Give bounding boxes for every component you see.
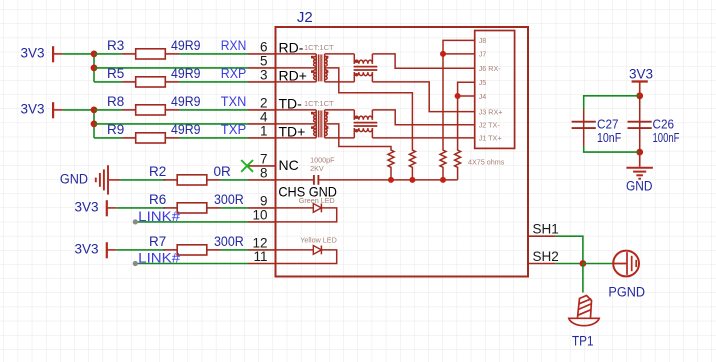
- svg-text:8: 8: [260, 166, 268, 181]
- pin SH2: [528, 263, 556, 265]
- junction: [636, 149, 643, 156]
- dangling end: [133, 261, 138, 266]
- svg-text:J1 TX+: J1 TX+: [479, 134, 502, 143]
- wire SH1 to junction: [556, 236, 583, 263]
- svg-text:R8: R8: [107, 94, 124, 109]
- svg-text:J2 TX-: J2 TX-: [479, 121, 501, 130]
- wire junction to TP1: [582, 264, 584, 293]
- capacitor C27 10nF: [583, 110, 585, 147]
- svg-text:1CT:1CT: 1CT:1CT: [304, 43, 334, 52]
- LED yellow: [276, 249, 314, 251]
- svg-text:NC: NC: [279, 157, 299, 173]
- pin 9: [248, 207, 276, 209]
- wire choke1 bottom to J3 RX+: [372, 82, 474, 112]
- junction: [91, 51, 98, 58]
- wire TD- to T2: [276, 109, 317, 111]
- svg-text:GND: GND: [626, 178, 653, 193]
- common-mode choke L1: [353, 54, 355, 64]
- svg-text:4X75 ohms: 4X75 ohms: [468, 158, 505, 167]
- transformer T1 1CT:1CT: [315, 54, 317, 82]
- wire TD+ to T2: [276, 137, 317, 139]
- wire center-tap pin: [94, 67, 248, 69]
- wire T1 top to choke1: [325, 53, 355, 55]
- svg-text:9: 9: [260, 194, 268, 209]
- junction: [440, 51, 446, 57]
- svg-text:Green LED: Green LED: [299, 196, 335, 205]
- svg-text:TP1: TP1: [572, 334, 594, 349]
- pin 10: [248, 221, 276, 223]
- svg-text:5: 5: [260, 54, 268, 69]
- svg-text:J2: J2: [297, 9, 313, 26]
- svg-text:RXP: RXP: [221, 66, 247, 81]
- svg-text:R6: R6: [149, 192, 166, 207]
- wire RD+ to T1: [276, 81, 317, 83]
- wire pin5 center tap to T1: [276, 67, 317, 69]
- svg-text:300R: 300R: [214, 234, 244, 249]
- wire choke1 top to J6 RX-: [372, 54, 474, 68]
- resistor R7: [116, 249, 165, 251]
- resistor R6: [116, 207, 165, 209]
- wire choke2 bottom to J1 TX+: [372, 137, 474, 139]
- wire center-tap pin: [94, 123, 248, 125]
- capacitor C26 100nF: [639, 96, 641, 152]
- junction: [91, 107, 98, 114]
- wire T2 bottom to choke2: [325, 137, 355, 139]
- power 3V3 (R8/R9 pair): [52, 102, 54, 118]
- svg-text:3V3: 3V3: [75, 241, 99, 256]
- svg-text:R5: R5: [107, 66, 124, 81]
- resistor R9: [94, 137, 122, 139]
- svg-text:3V3: 3V3: [21, 101, 45, 116]
- power 3V3 (R3/R5 pair): [52, 46, 54, 62]
- wire 3V3 to junction: [63, 109, 94, 111]
- ground GND (right): [639, 152, 641, 167]
- svg-text:2: 2: [260, 96, 268, 111]
- svg-text:R2: R2: [149, 164, 166, 179]
- svg-text:J7: J7: [479, 50, 487, 59]
- svg-text:0R: 0R: [214, 164, 232, 179]
- svg-text:Yellow LED: Yellow LED: [300, 236, 337, 245]
- wire 3V3 to junction: [63, 53, 94, 55]
- svg-text:100nF: 100nF: [653, 130, 680, 145]
- junction: [91, 65, 98, 72]
- resistor 75R b: [409, 147, 415, 180]
- svg-text:11: 11: [253, 249, 267, 264]
- svg-text:RXN: RXN: [221, 38, 247, 53]
- pin 5: [248, 67, 276, 69]
- svg-text:SH2: SH2: [533, 249, 559, 264]
- resistor R5: [94, 81, 122, 83]
- svg-text:GND: GND: [60, 172, 88, 187]
- svg-text:49R9: 49R9: [171, 66, 201, 81]
- svg-text:3V3: 3V3: [629, 66, 653, 81]
- wire RD- to T1: [276, 53, 317, 55]
- svg-text:3V3: 3V3: [21, 45, 45, 60]
- junction: [388, 177, 394, 183]
- junction: [455, 93, 461, 99]
- pin 11: [248, 263, 276, 265]
- wire choke2 top to J2 TX-: [372, 110, 474, 125]
- wire SH2 to junction: [556, 263, 583, 265]
- wire pin4 center tap to T2: [276, 123, 317, 125]
- junction: [91, 121, 98, 128]
- junction: [580, 260, 587, 267]
- test point TP1: [569, 296, 599, 326]
- svg-text:3V3: 3V3: [75, 199, 99, 214]
- LED green: [276, 207, 314, 209]
- svg-text:J3 RX+: J3 RX+: [479, 107, 503, 116]
- svg-text:J5: J5: [479, 78, 487, 87]
- pin 7: [248, 165, 276, 167]
- wire J8/J7 bus: [443, 40, 475, 147]
- junction: [636, 92, 643, 99]
- junction: [409, 177, 415, 183]
- svg-text:4: 4: [260, 110, 268, 125]
- wire capacitor to resistor bottoms: [319, 179, 458, 181]
- svg-text:49R9: 49R9: [171, 38, 201, 53]
- no-connect X (pin 7): [241, 160, 253, 172]
- svg-text:10nF: 10nF: [597, 130, 621, 145]
- resistor R8: [94, 109, 122, 111]
- resistor 75R a: [388, 147, 394, 180]
- pin SH1: [528, 235, 556, 237]
- resistor 75R d: [455, 147, 461, 180]
- common-mode choke L2: [353, 110, 355, 120]
- wire LINK#: [135, 263, 248, 265]
- svg-text:R7: R7: [149, 234, 166, 249]
- wire cap bottom: [584, 146, 640, 152]
- resistor R2: [120, 179, 165, 181]
- pin 2: [248, 109, 276, 111]
- svg-text:R3: R3: [107, 38, 124, 53]
- svg-text:TXP: TXP: [221, 122, 247, 137]
- pin 3: [248, 81, 276, 83]
- svg-text:J4: J4: [479, 92, 487, 101]
- svg-text:SH1: SH1: [533, 222, 559, 237]
- pin 1: [248, 137, 276, 139]
- wire T1 bottom to choke1: [325, 81, 355, 83]
- svg-text:1CT:1CT: 1CT:1CT: [304, 99, 334, 108]
- svg-text:PGND: PGND: [608, 285, 645, 300]
- power 3V3 (right): [632, 80, 648, 82]
- connector plug box: [475, 31, 515, 149]
- wire junction to PGND: [583, 263, 613, 265]
- svg-text:2KV: 2KV: [310, 164, 324, 173]
- svg-text:10: 10: [252, 208, 267, 223]
- svg-text:J6 RX-: J6 RX-: [479, 64, 502, 73]
- svg-text:TXN: TXN: [221, 94, 247, 109]
- svg-text:6: 6: [260, 40, 268, 55]
- ground GND (left): [95, 178, 97, 183]
- wire LINK#: [135, 221, 248, 223]
- wire T1 center tap to resistor: [325, 68, 413, 147]
- power 3V3 (R7): [106, 242, 108, 258]
- pin 6: [248, 53, 276, 55]
- svg-text:3: 3: [260, 68, 268, 83]
- wire cap top: [584, 96, 640, 110]
- svg-text:R9: R9: [107, 122, 124, 137]
- wire T2 center tap to resistor: [325, 124, 391, 147]
- wire pin8 to capacitor: [276, 179, 314, 181]
- svg-text:49R9: 49R9: [171, 122, 201, 137]
- resistor R3: [94, 53, 122, 55]
- svg-text:J8: J8: [479, 36, 487, 45]
- wire T2 top to choke2: [325, 109, 355, 111]
- svg-text:300R: 300R: [214, 192, 244, 207]
- pin 8: [248, 179, 276, 181]
- svg-text:1: 1: [260, 124, 268, 139]
- connector J2 box: [276, 27, 529, 277]
- junction: [440, 177, 446, 183]
- wire J5/J4 bus: [458, 82, 475, 147]
- svg-text:7: 7: [260, 152, 268, 167]
- capacitor 1000pF 2KV: [313, 175, 315, 185]
- power PGND: [613, 251, 639, 277]
- pin 4: [248, 123, 276, 125]
- svg-text:49R9: 49R9: [171, 94, 201, 109]
- power 3V3 (R6): [106, 200, 108, 216]
- resistor 75R c: [440, 147, 446, 180]
- pin 12: [248, 249, 276, 251]
- transformer T2 1CT:1CT: [315, 110, 317, 138]
- dangling end: [133, 219, 138, 224]
